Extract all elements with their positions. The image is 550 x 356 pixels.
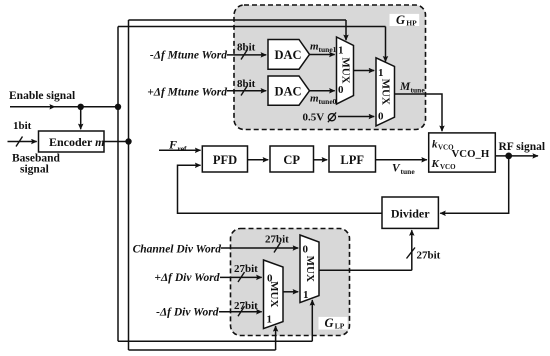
label -Δf Div Word [156, 307, 219, 319]
label Enable signal [9, 90, 75, 102]
svg-text:0: 0 [303, 244, 309, 256]
wire VCO output RF signal [495, 155, 538, 157]
wire 0.5V to MUX2 input 0 [338, 116, 374, 118]
svg-text:LP: LP [335, 322, 345, 331]
mux U2 (G_HP outer MUX) [376, 58, 395, 126]
svg-text:27bit: 27bit [417, 250, 441, 262]
label Channel Div Word [133, 244, 222, 256]
svg-text:1: 1 [378, 67, 384, 79]
wire MUX1 output to MUX2 input 1 [354, 70, 375, 72]
label F_ref [168, 138, 187, 154]
mux U1 (G_HP inner MUX) [337, 37, 354, 104]
label 27bit (+Δf) [234, 263, 258, 275]
wire enable bus vertical [117, 27, 119, 342]
svg-text:-Δf Div Word: -Δf Div Word [156, 307, 219, 319]
svg-text:Channel Div Word: Channel Div Word [133, 244, 222, 256]
label 0.5V [303, 112, 325, 124]
svg-text:HP: HP [406, 19, 417, 28]
label 8bit (DAC2) [237, 78, 256, 90]
wire +Δf Div Word to MUX3 input 0 with slash [220, 272, 262, 282]
label 27bit (-Δf) [234, 300, 258, 312]
label -Δf Mtune Word [150, 50, 227, 62]
mux U4 (G_LP outer MUX) [300, 235, 319, 303]
DAC D2 [268, 76, 310, 105]
node enable-to-encoder junction [78, 104, 84, 110]
wire G_LP output to Divider with slash [319, 230, 415, 270]
svg-text:1: 1 [338, 45, 344, 57]
wire CP to LPF [314, 159, 328, 161]
svg-text:tune0: tune0 [319, 97, 337, 106]
wire F_ref into PFD [159, 149, 201, 151]
svg-text:MUX: MUX [339, 57, 351, 83]
svg-text:Encoder m: Encoder m [49, 135, 104, 149]
label 27bit (divider input) [417, 250, 441, 262]
svg-text:DAC: DAC [275, 48, 302, 62]
svg-text:tune1: tune1 [319, 45, 337, 54]
wire encoder bus top run to MUX1 select [129, 20, 347, 40]
wire Channel Div Word to MUX4 input 0 with slash [221, 243, 298, 253]
wire -Δf word to DAC1 with slash [227, 50, 266, 60]
svg-text:PFD: PFD [213, 153, 237, 167]
svg-text:CP: CP [283, 153, 300, 167]
svg-text:27bit: 27bit [234, 263, 258, 275]
node encoder-to-bus junction [125, 138, 131, 144]
wire -Δf Div Word to MUX3 input 1 with slash [219, 306, 262, 316]
wire RF feedback down to Divider [440, 156, 509, 213]
VCO block VCO_H [429, 133, 496, 172]
svg-text:1bit: 1bit [13, 120, 32, 132]
svg-text:G: G [325, 316, 334, 330]
wire encoder output to bus [104, 141, 129, 143]
svg-text:+Δf Div Word: +Δf Div Word [154, 272, 219, 284]
svg-text:signal: signal [20, 164, 49, 176]
wire PFD to CP [248, 159, 269, 161]
svg-text:0: 0 [338, 84, 344, 96]
svg-text:-Δf Mtune Word: -Δf Mtune Word [150, 50, 227, 62]
svg-text:27bit: 27bit [265, 234, 289, 246]
label 1bit [13, 120, 32, 132]
mux U3 (G_LP inner MUX) [264, 260, 284, 329]
svg-text:tune: tune [401, 167, 416, 176]
svg-text:8bit: 8bit [237, 78, 256, 90]
encoder block Encoder m [39, 131, 105, 152]
wire MUX2 output M_tune to VCO top [395, 94, 443, 131]
svg-text:MUX: MUX [304, 256, 316, 282]
label Baseband signal [12, 153, 61, 176]
svg-text:27bit: 27bit [234, 300, 258, 312]
svg-text:MUX: MUX [380, 79, 392, 105]
svg-text:K: K [431, 158, 440, 170]
low-pass modulation block G_LP (dashed grey box) [231, 229, 350, 336]
svg-text:Divider: Divider [391, 207, 430, 221]
svg-text:+Δf Mtune Word: +Δf Mtune Word [147, 87, 227, 99]
node enable-to-bus junction [115, 104, 121, 110]
wire +Δf word to DAC2 with slash [227, 86, 266, 96]
wire DAC1 to MUX1 input 1 [310, 54, 335, 56]
svg-text:Enable signal: Enable signal [9, 90, 75, 102]
label M_tune [399, 81, 425, 95]
svg-text:M: M [399, 81, 411, 93]
svg-text:VCO: VCO [440, 163, 456, 171]
label V_tune [392, 163, 415, 177]
svg-text:0: 0 [378, 111, 384, 123]
wire encoder bus vertical [128, 20, 130, 350]
svg-text:0.5V: 0.5V [303, 112, 325, 124]
high-pass modulation block G_HP (dashed grey box) [234, 5, 426, 130]
label +Δf Div Word [154, 272, 219, 284]
svg-text:8bit: 8bit [237, 42, 256, 54]
label RF signal [499, 141, 546, 153]
wire baseband input with slash [8, 137, 37, 147]
svg-text:tune: tune [411, 86, 426, 95]
block Divider [382, 197, 438, 228]
block CP [270, 146, 314, 172]
svg-text:G: G [396, 13, 405, 27]
label 8bit (DAC1) [237, 42, 256, 54]
svg-text:DAC: DAC [275, 84, 302, 98]
label +Δf Mtune Word [147, 87, 227, 99]
svg-text:VCO_H: VCO_H [452, 148, 490, 160]
wire DAC2 to MUX1 input 0 [310, 90, 335, 92]
wire MUX3 output to MUX4 input 1 [283, 291, 298, 293]
label 27bit (channel) [265, 234, 289, 246]
svg-text:LPF: LPF [340, 153, 364, 167]
svg-text:ref: ref [178, 144, 188, 153]
label G_HP [390, 13, 420, 28]
wire enable bus top run to MUX2 select [118, 27, 386, 62]
DAC D1 [268, 40, 310, 70]
block PFD [202, 146, 247, 172]
block LPF [329, 146, 376, 172]
label m_tune0 [310, 93, 337, 107]
svg-text:MUX: MUX [268, 281, 280, 307]
wire enable branch down into Encoder [80, 107, 82, 129]
wire enable bus bottom run to G_LP MUX4 select [118, 300, 312, 341]
clock phase symbol Ø [328, 112, 336, 122]
wire LPF to VCO (V_tune) [376, 159, 427, 161]
svg-text:1: 1 [303, 289, 309, 301]
label G_LP [319, 316, 348, 331]
svg-text:F: F [168, 138, 177, 152]
node RF output junction [505, 153, 512, 160]
wire enable signal input [10, 106, 118, 108]
svg-text:RF signal: RF signal [499, 141, 546, 153]
label m_tune1 [310, 41, 337, 55]
wire encoder bus bottom run to G_LP MUX3 select [129, 326, 276, 350]
wire Divider output feedback to PFD [178, 165, 383, 213]
svg-text:1: 1 [267, 314, 273, 326]
